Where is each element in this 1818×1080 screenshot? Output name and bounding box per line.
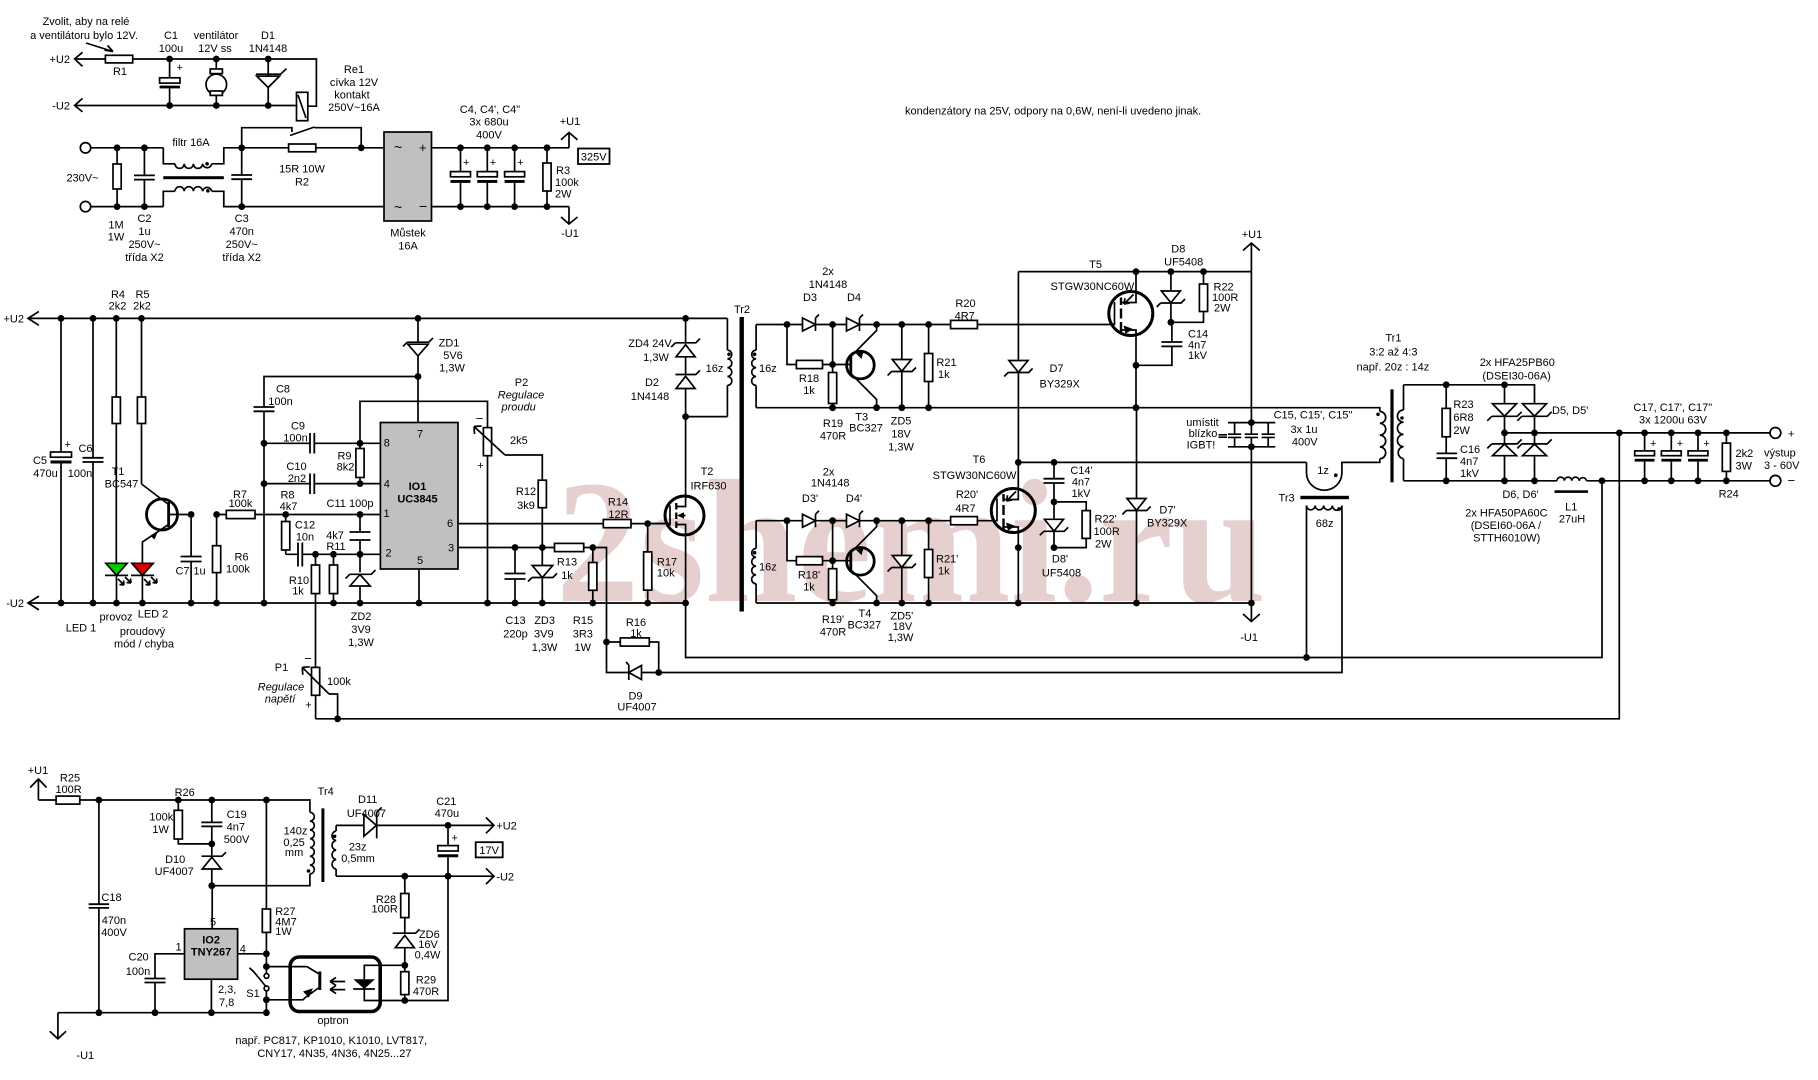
svg-text:1,3W: 1,3W <box>888 632 914 644</box>
transistor T1 BC547 <box>105 466 139 491</box>
svg-text:470R: 470R <box>820 627 846 639</box>
capacitor C4 <box>460 104 521 142</box>
svg-text:cívka 12V: cívka 12V <box>330 77 379 89</box>
svg-text:C20: C20 <box>129 952 149 964</box>
wire secondary top <box>1404 385 1535 404</box>
svg-text:230V~: 230V~ <box>66 173 98 185</box>
svg-text:16A: 16A <box>398 241 418 253</box>
svg-text:1W: 1W <box>275 926 292 938</box>
IGBT T5 STGW30NC60W <box>1051 259 1135 293</box>
svg-text:18V: 18V <box>891 429 911 441</box>
svg-text:−: − <box>419 198 427 214</box>
transformer Tr4 core <box>318 786 334 798</box>
svg-text:R14: R14 <box>608 497 628 509</box>
opto LED <box>364 965 405 1000</box>
svg-text:R1: R1 <box>113 66 127 78</box>
wire ZD1 node to C8 <box>264 377 418 408</box>
diode D4 <box>847 292 861 304</box>
svg-text:1W: 1W <box>152 824 169 836</box>
svg-text:250V~: 250V~ <box>226 239 258 251</box>
svg-text:UF4007: UF4007 <box>155 866 194 878</box>
Tr3 secondary 68z <box>1307 506 1342 511</box>
svg-text:C7: C7 <box>175 566 189 578</box>
svg-text:+: + <box>490 157 496 169</box>
svg-text:R19: R19 <box>823 418 843 430</box>
wire AC bottom <box>91 191 384 206</box>
diode D3' <box>802 493 818 505</box>
svg-text:3 - 60V: 3 - 60V <box>1764 460 1800 472</box>
resistor R15 3R3 1W <box>592 548 594 604</box>
svg-text:R24: R24 <box>1719 488 1739 500</box>
svg-text:+: + <box>1677 438 1683 450</box>
svg-text:Můstek: Můstek <box>390 228 426 240</box>
capacitor C3 <box>241 148 243 207</box>
svg-text:C13: C13 <box>505 615 525 627</box>
wire midpoint rail (T6 collector) <box>1018 461 1306 463</box>
wire AC top <box>91 148 384 164</box>
resistor R3 100k 2W <box>546 148 548 207</box>
svg-text:C15, C15', C15": C15, C15', C15" <box>1274 410 1353 422</box>
transformer Tr2 core <box>734 304 750 316</box>
svg-text:R25: R25 <box>60 773 80 785</box>
capacitor C7 1u <box>190 515 192 604</box>
svg-text:T6: T6 <box>973 454 986 466</box>
Tr1 primary winding <box>1380 412 1386 459</box>
svg-text:IO2: IO2 <box>202 935 220 947</box>
svg-text:D1: D1 <box>261 30 275 42</box>
svg-text:P1: P1 <box>275 662 288 674</box>
wire pin5 to rail <box>418 569 420 603</box>
resistor R12 3k9 <box>538 480 546 508</box>
label 2x HFA25PB60 <box>1480 357 1555 382</box>
svg-text:-U2: -U2 <box>496 871 514 883</box>
zener ZD5 18V <box>901 325 903 408</box>
svg-text:+: + <box>305 700 311 712</box>
svg-text:1kV: 1kV <box>1072 488 1092 500</box>
svg-text:250V~: 250V~ <box>128 239 160 251</box>
svg-text:-U2: -U2 <box>6 598 24 610</box>
svg-text:1k: 1k <box>803 582 815 594</box>
wire bottom driver return (-U1 rail) <box>756 602 1251 604</box>
svg-text:R11: R11 <box>326 541 345 553</box>
Tr4 secondary 23z <box>335 825 337 876</box>
svg-text:blízko: blízko <box>1189 428 1218 440</box>
capacitor C13 220p <box>514 548 516 604</box>
svg-text:15R 10W: 15R 10W <box>279 164 325 176</box>
svg-text:C12: C12 <box>295 520 315 532</box>
filter inductor filtr 16A <box>172 137 210 149</box>
svg-text:napětí: napětí <box>265 694 297 706</box>
svg-text:470R: 470R <box>413 986 439 998</box>
svg-text:D3: D3 <box>803 292 817 304</box>
svg-text:3k9: 3k9 <box>517 500 535 512</box>
svg-text:100n: 100n <box>68 468 92 480</box>
svg-text:+U2: +U2 <box>50 54 71 66</box>
capacitor C14 4n7 1kV <box>1136 322 1172 365</box>
svg-text:+U2: +U2 <box>496 821 517 833</box>
resistor R11 4k7 <box>333 554 335 603</box>
svg-text:3R3: 3R3 <box>573 629 593 641</box>
diode D5' <box>1534 404 1536 433</box>
inductor L1 27uH <box>1557 477 1587 481</box>
wire top driver rail <box>756 324 1109 326</box>
zener ZD2 3V9 <box>359 554 361 603</box>
svg-text:ZD3: ZD3 <box>534 615 555 627</box>
wire +U1 top rail <box>1018 271 1251 273</box>
LED 1 (green, provoz) <box>105 574 128 576</box>
Tr2 primary winding 16z <box>726 318 728 416</box>
svg-text:D2: D2 <box>645 377 659 389</box>
svg-text:BC327: BC327 <box>847 620 881 632</box>
svg-text:1N4148: 1N4148 <box>631 391 670 403</box>
svg-text:2W: 2W <box>1095 539 1112 551</box>
LED 2 (red, proudový mód) <box>131 574 154 576</box>
resistor R4 2k2 <box>115 318 117 563</box>
svg-text:12V ss: 12V ss <box>198 43 232 55</box>
svg-text:+U1: +U1 <box>1242 229 1263 241</box>
svg-text:R8: R8 <box>280 490 294 502</box>
resistor R9 8k2 <box>359 443 361 483</box>
svg-text:S1: S1 <box>246 988 259 1000</box>
svg-text:1W: 1W <box>575 642 592 654</box>
wire rectified mid rail <box>1505 432 1776 434</box>
svg-text:kontakt: kontakt <box>334 90 369 102</box>
wire D10 node to Tr4 primary bottom / pin5 <box>212 874 310 929</box>
capacitor C20 100n <box>145 979 166 983</box>
svg-text:výstup: výstup <box>1764 447 1796 459</box>
svg-text:R29: R29 <box>416 975 436 987</box>
label 2x 1N4148 (top) <box>809 266 848 291</box>
svg-text:1N4148: 1N4148 <box>249 43 288 55</box>
zener ZD1 5V6 <box>417 318 419 422</box>
svg-text:+: + <box>463 157 469 169</box>
svg-text:+: + <box>65 439 71 451</box>
label 17V box <box>476 842 503 857</box>
svg-text:R18: R18 <box>799 373 819 385</box>
svg-text:D6, D6': D6, D6' <box>1502 489 1538 501</box>
resistor R20 4R7 <box>951 320 978 328</box>
resistor R13 1k <box>555 543 584 551</box>
svg-text:100R: 100R <box>55 784 81 796</box>
resistor R23 6R8 2W <box>1445 385 1447 454</box>
svg-text:100u: 100u <box>159 43 183 55</box>
capacitor C10 2n2 <box>264 483 380 485</box>
svg-text:~: ~ <box>394 199 402 215</box>
capacitor C17'' <box>1697 433 1699 481</box>
svg-text:100k: 100k <box>226 564 250 576</box>
svg-text:R15: R15 <box>573 615 593 627</box>
svg-text:P2: P2 <box>515 377 528 389</box>
capacitor C19 4n7 500V <box>211 800 213 844</box>
node -U1 arrow <box>1243 614 1260 622</box>
diode D8' UF5408 <box>1053 502 1055 548</box>
svg-text:1,3W: 1,3W <box>348 637 374 649</box>
resistor R27 4M7 1W <box>265 800 267 954</box>
svg-text:+: + <box>1650 438 1656 450</box>
node -U1 (bottom) <box>50 1013 66 1039</box>
svg-text:R12: R12 <box>516 486 536 498</box>
svg-text:LED 2: LED 2 <box>138 609 169 621</box>
svg-text:1N4148: 1N4148 <box>811 478 850 490</box>
svg-text:3x 1u: 3x 1u <box>1291 424 1318 436</box>
svg-text:100k: 100k <box>229 498 253 510</box>
svg-text:Tr4: Tr4 <box>318 786 334 798</box>
resistor R1 <box>105 55 132 63</box>
svg-text:6R8: 6R8 <box>1453 412 1473 424</box>
svg-text:C17, C17', C17": C17, C17', C17" <box>1633 402 1712 414</box>
svg-text:1k: 1k <box>938 566 950 578</box>
svg-text:R13: R13 <box>557 557 577 569</box>
svg-text:Tr1: Tr1 <box>1385 332 1401 344</box>
svg-text:ZD5: ZD5 <box>891 416 912 428</box>
svg-text:1,3W: 1,3W <box>532 642 558 654</box>
svg-text:IGBT!: IGBT! <box>1187 440 1216 452</box>
svg-text:TNY267: TNY267 <box>191 947 231 959</box>
svg-text:BC547: BC547 <box>105 479 139 491</box>
wire P1 to output sense (long) <box>316 433 1620 719</box>
optocoupler optron box <box>290 957 380 1012</box>
wire bottom rail <box>58 1012 267 1014</box>
svg-text:1k: 1k <box>292 586 304 598</box>
svg-text:R2: R2 <box>295 177 309 189</box>
svg-text:140z: 140z <box>284 825 308 837</box>
svg-text:T5: T5 <box>1089 259 1102 271</box>
note text "Zvolit, aby na relé..." <box>30 16 138 42</box>
svg-text:−: − <box>1788 473 1796 488</box>
capacitor C1 <box>159 30 183 74</box>
svg-text:5V6: 5V6 <box>443 350 463 362</box>
svg-text:CNY17, 4N35, 4N36, 4N25...27: CNY17, 4N35, 4N36, 4N25...27 <box>257 1048 411 1060</box>
capacitor C4'' <box>514 148 516 207</box>
svg-text:400V: 400V <box>1292 437 1318 449</box>
relay coil Re1 <box>297 92 308 120</box>
svg-text:(DSEI30-06A): (DSEI30-06A) <box>1482 371 1550 383</box>
svg-text:2n2: 2n2 <box>288 473 306 485</box>
svg-text:ZD4 24V: ZD4 24V <box>628 338 672 350</box>
svg-text:3V9: 3V9 <box>351 624 371 636</box>
node +U2 arrow (bottom) <box>486 818 494 834</box>
diode D1 1N4148 <box>249 30 288 55</box>
svg-text:R18': R18' <box>798 570 820 582</box>
svg-text:1k: 1k <box>803 385 815 397</box>
svg-text:100R: 100R <box>372 904 398 916</box>
svg-text:2x HFA25PB60: 2x HFA25PB60 <box>1480 357 1555 369</box>
capacitor C2 <box>143 148 145 207</box>
svg-text:C9: C9 <box>291 421 305 433</box>
svg-text:LED 1: LED 1 <box>66 623 97 635</box>
svg-text:1W: 1W <box>108 232 125 244</box>
svg-text:2k5: 2k5 <box>510 435 528 447</box>
svg-text:třída X2: třída X2 <box>125 252 164 264</box>
wire +U2 rail <box>28 317 727 319</box>
svg-text:5: 5 <box>417 555 423 567</box>
diode D7 BY329X <box>1017 272 1019 463</box>
svg-text:+U1: +U1 <box>560 116 581 128</box>
svg-text:−: − <box>304 651 312 666</box>
svg-text:C8: C8 <box>276 384 290 396</box>
capacitor C16 4n7 1kV <box>1437 453 1458 458</box>
resistor R22' 100R 2W <box>1054 502 1086 548</box>
svg-text:T2: T2 <box>701 466 714 478</box>
svg-text:C3: C3 <box>235 213 249 225</box>
svg-text:1k: 1k <box>561 570 573 582</box>
svg-text:100k: 100k <box>327 676 351 688</box>
motor ventilátor 12V ss <box>194 30 239 55</box>
svg-text:Regulace: Regulace <box>498 390 544 402</box>
svg-text:UF5408: UF5408 <box>1042 568 1081 580</box>
diode D5 <box>1504 385 1506 433</box>
svg-text:C11 100p: C11 100p <box>327 498 374 510</box>
capacitor C8 100n <box>254 407 275 411</box>
svg-text:2k2: 2k2 <box>133 301 151 313</box>
wire D3'/D4' node down <box>832 521 834 561</box>
svg-text:R6: R6 <box>235 552 249 564</box>
svg-text:STGW30NC60W: STGW30NC60W <box>933 470 1017 482</box>
Tr1 secondary winding <box>1403 385 1405 481</box>
output terminal − <box>1770 475 1781 486</box>
svg-text:0,5mm: 0,5mm <box>341 853 375 865</box>
resistor R17 10k <box>647 524 649 603</box>
wire DC+ rail <box>432 148 570 207</box>
svg-text:D8: D8 <box>1171 244 1185 256</box>
svg-text:400V: 400V <box>101 927 127 939</box>
svg-text:23z: 23z <box>349 842 367 854</box>
svg-text:4n7: 4n7 <box>1460 456 1478 468</box>
wire -U2 top row <box>75 105 297 107</box>
svg-text:4R7: 4R7 <box>955 311 975 323</box>
svg-text:filtr 16A: filtr 16A <box>172 137 210 149</box>
svg-text:R19': R19' <box>822 614 844 626</box>
capacitor C11 100p <box>359 515 361 555</box>
svg-text:16z: 16z <box>759 562 777 574</box>
svg-text:mód / chyba: mód / chyba <box>114 639 175 651</box>
node -U1 (top) <box>561 207 578 224</box>
svg-text:470R: 470R <box>820 431 846 443</box>
wire bottom driver rail <box>756 520 992 522</box>
wire R26 node to Tr4 <box>178 800 310 812</box>
svg-text:UC3845: UC3845 <box>397 494 437 506</box>
svg-text:R4: R4 <box>111 289 125 301</box>
capacitor C21 470u <box>435 796 459 844</box>
svg-text:12R: 12R <box>608 509 628 521</box>
wire -U2 rail <box>28 602 686 604</box>
diode D6 <box>1504 433 1506 481</box>
svg-text:2W: 2W <box>555 189 572 201</box>
capacitor C5 470u <box>60 318 62 603</box>
svg-text:+: + <box>1788 429 1794 441</box>
svg-text:D11: D11 <box>358 794 377 806</box>
svg-text:UF5408: UF5408 <box>1164 257 1203 269</box>
svg-text:D8': D8' <box>1052 554 1068 566</box>
svg-text:C21: C21 <box>436 796 456 808</box>
svg-text:8: 8 <box>384 438 390 450</box>
svg-text:1: 1 <box>176 942 182 954</box>
node +U2 (relay row) <box>50 54 71 66</box>
note optocoupler types <box>235 1035 427 1060</box>
svg-text:ZD1: ZD1 <box>439 338 460 350</box>
svg-text:4: 4 <box>384 479 390 491</box>
zener ZD3 3V9 <box>541 548 543 604</box>
potentiometer P2 2k5 <box>476 377 545 472</box>
svg-text:3x 1200u 63V: 3x 1200u 63V <box>1639 415 1708 427</box>
diode D4' <box>846 493 862 505</box>
diode D8 UF5408 <box>1164 244 1203 269</box>
annotation arrow <box>86 43 113 52</box>
resistor R21' 1k <box>928 521 930 603</box>
resistor R22 100R 2W <box>1171 272 1204 323</box>
svg-text:1u: 1u <box>193 566 205 578</box>
svg-text:470u: 470u <box>33 468 57 480</box>
svg-text:Re1: Re1 <box>344 64 364 76</box>
svg-text:7,8: 7,8 <box>219 997 234 1009</box>
svg-text:6: 6 <box>447 518 453 530</box>
svg-text:1: 1 <box>383 508 389 520</box>
svg-text:100k: 100k <box>555 177 579 189</box>
resistor R19 470R <box>832 365 834 408</box>
terminal circles 230V <box>80 143 90 153</box>
svg-text:4k7: 4k7 <box>280 501 298 513</box>
wire pin3 <box>458 548 607 643</box>
resistor R18' 1k <box>787 521 851 561</box>
opto phototransistor <box>266 967 318 974</box>
resistor R26 100k 1W <box>178 800 212 844</box>
svg-text:2,3,: 2,3, <box>218 984 236 996</box>
wire pin4 node <box>238 954 267 967</box>
capacitor C12 10n <box>286 553 381 555</box>
svg-text:8k2: 8k2 <box>337 462 355 474</box>
svg-text:5: 5 <box>210 917 216 929</box>
resistor R19' 470R <box>832 561 834 603</box>
svg-text:C16: C16 <box>1460 444 1480 456</box>
svg-text:D7': D7' <box>1159 505 1175 517</box>
svg-text:STTH6010W): STTH6010W) <box>1473 532 1540 544</box>
svg-text:Regulace: Regulace <box>258 682 304 694</box>
node +U1 arrow <box>1243 243 1260 272</box>
wire pin6 <box>458 523 669 525</box>
svg-text:R3: R3 <box>556 165 570 177</box>
svg-text:kondenzátory na 25V, odpory na: kondenzátory na 25V, odpory na 0,6W, nen… <box>905 106 1201 118</box>
svg-text:100n: 100n <box>126 966 150 978</box>
svg-text:+: + <box>517 157 523 169</box>
switch S1 <box>250 967 267 1000</box>
svg-text:+U1: +U1 <box>28 765 49 777</box>
diode D7' BY329X <box>1136 408 1138 603</box>
wire +U2 top row <box>75 59 317 106</box>
svg-text:2k2: 2k2 <box>109 301 127 313</box>
svg-text:+: + <box>477 460 483 472</box>
svg-text:220p: 220p <box>503 629 527 641</box>
svg-text:16z: 16z <box>759 363 777 375</box>
resistor R28 100R <box>404 876 406 933</box>
wire +U1 vertical to C15 <box>1250 272 1252 622</box>
svg-text:proudový: proudový <box>120 626 166 638</box>
svg-text:D3': D3' <box>802 493 818 505</box>
svg-text:+: + <box>419 140 427 155</box>
wire S1 to rail <box>265 1000 267 1013</box>
svg-text:R20: R20 <box>955 298 975 310</box>
svg-text:2x HFA50PA60C: 2x HFA50PA60C <box>1465 508 1547 520</box>
svg-text:(DSEI60-06A /: (DSEI60-06A / <box>1471 520 1542 532</box>
resistor R21 1k <box>928 325 930 408</box>
svg-text:C14': C14' <box>1070 465 1092 477</box>
output terminal + <box>1770 428 1781 439</box>
labels provoz / LED <box>66 609 175 651</box>
relay contact bypass wire <box>242 127 362 148</box>
potentiometer P1 100k Regulace napětí <box>258 651 352 712</box>
Tr4 primary 140z <box>310 812 314 874</box>
svg-text:UF4007: UF4007 <box>617 702 656 714</box>
svg-text:470u: 470u <box>435 808 459 820</box>
